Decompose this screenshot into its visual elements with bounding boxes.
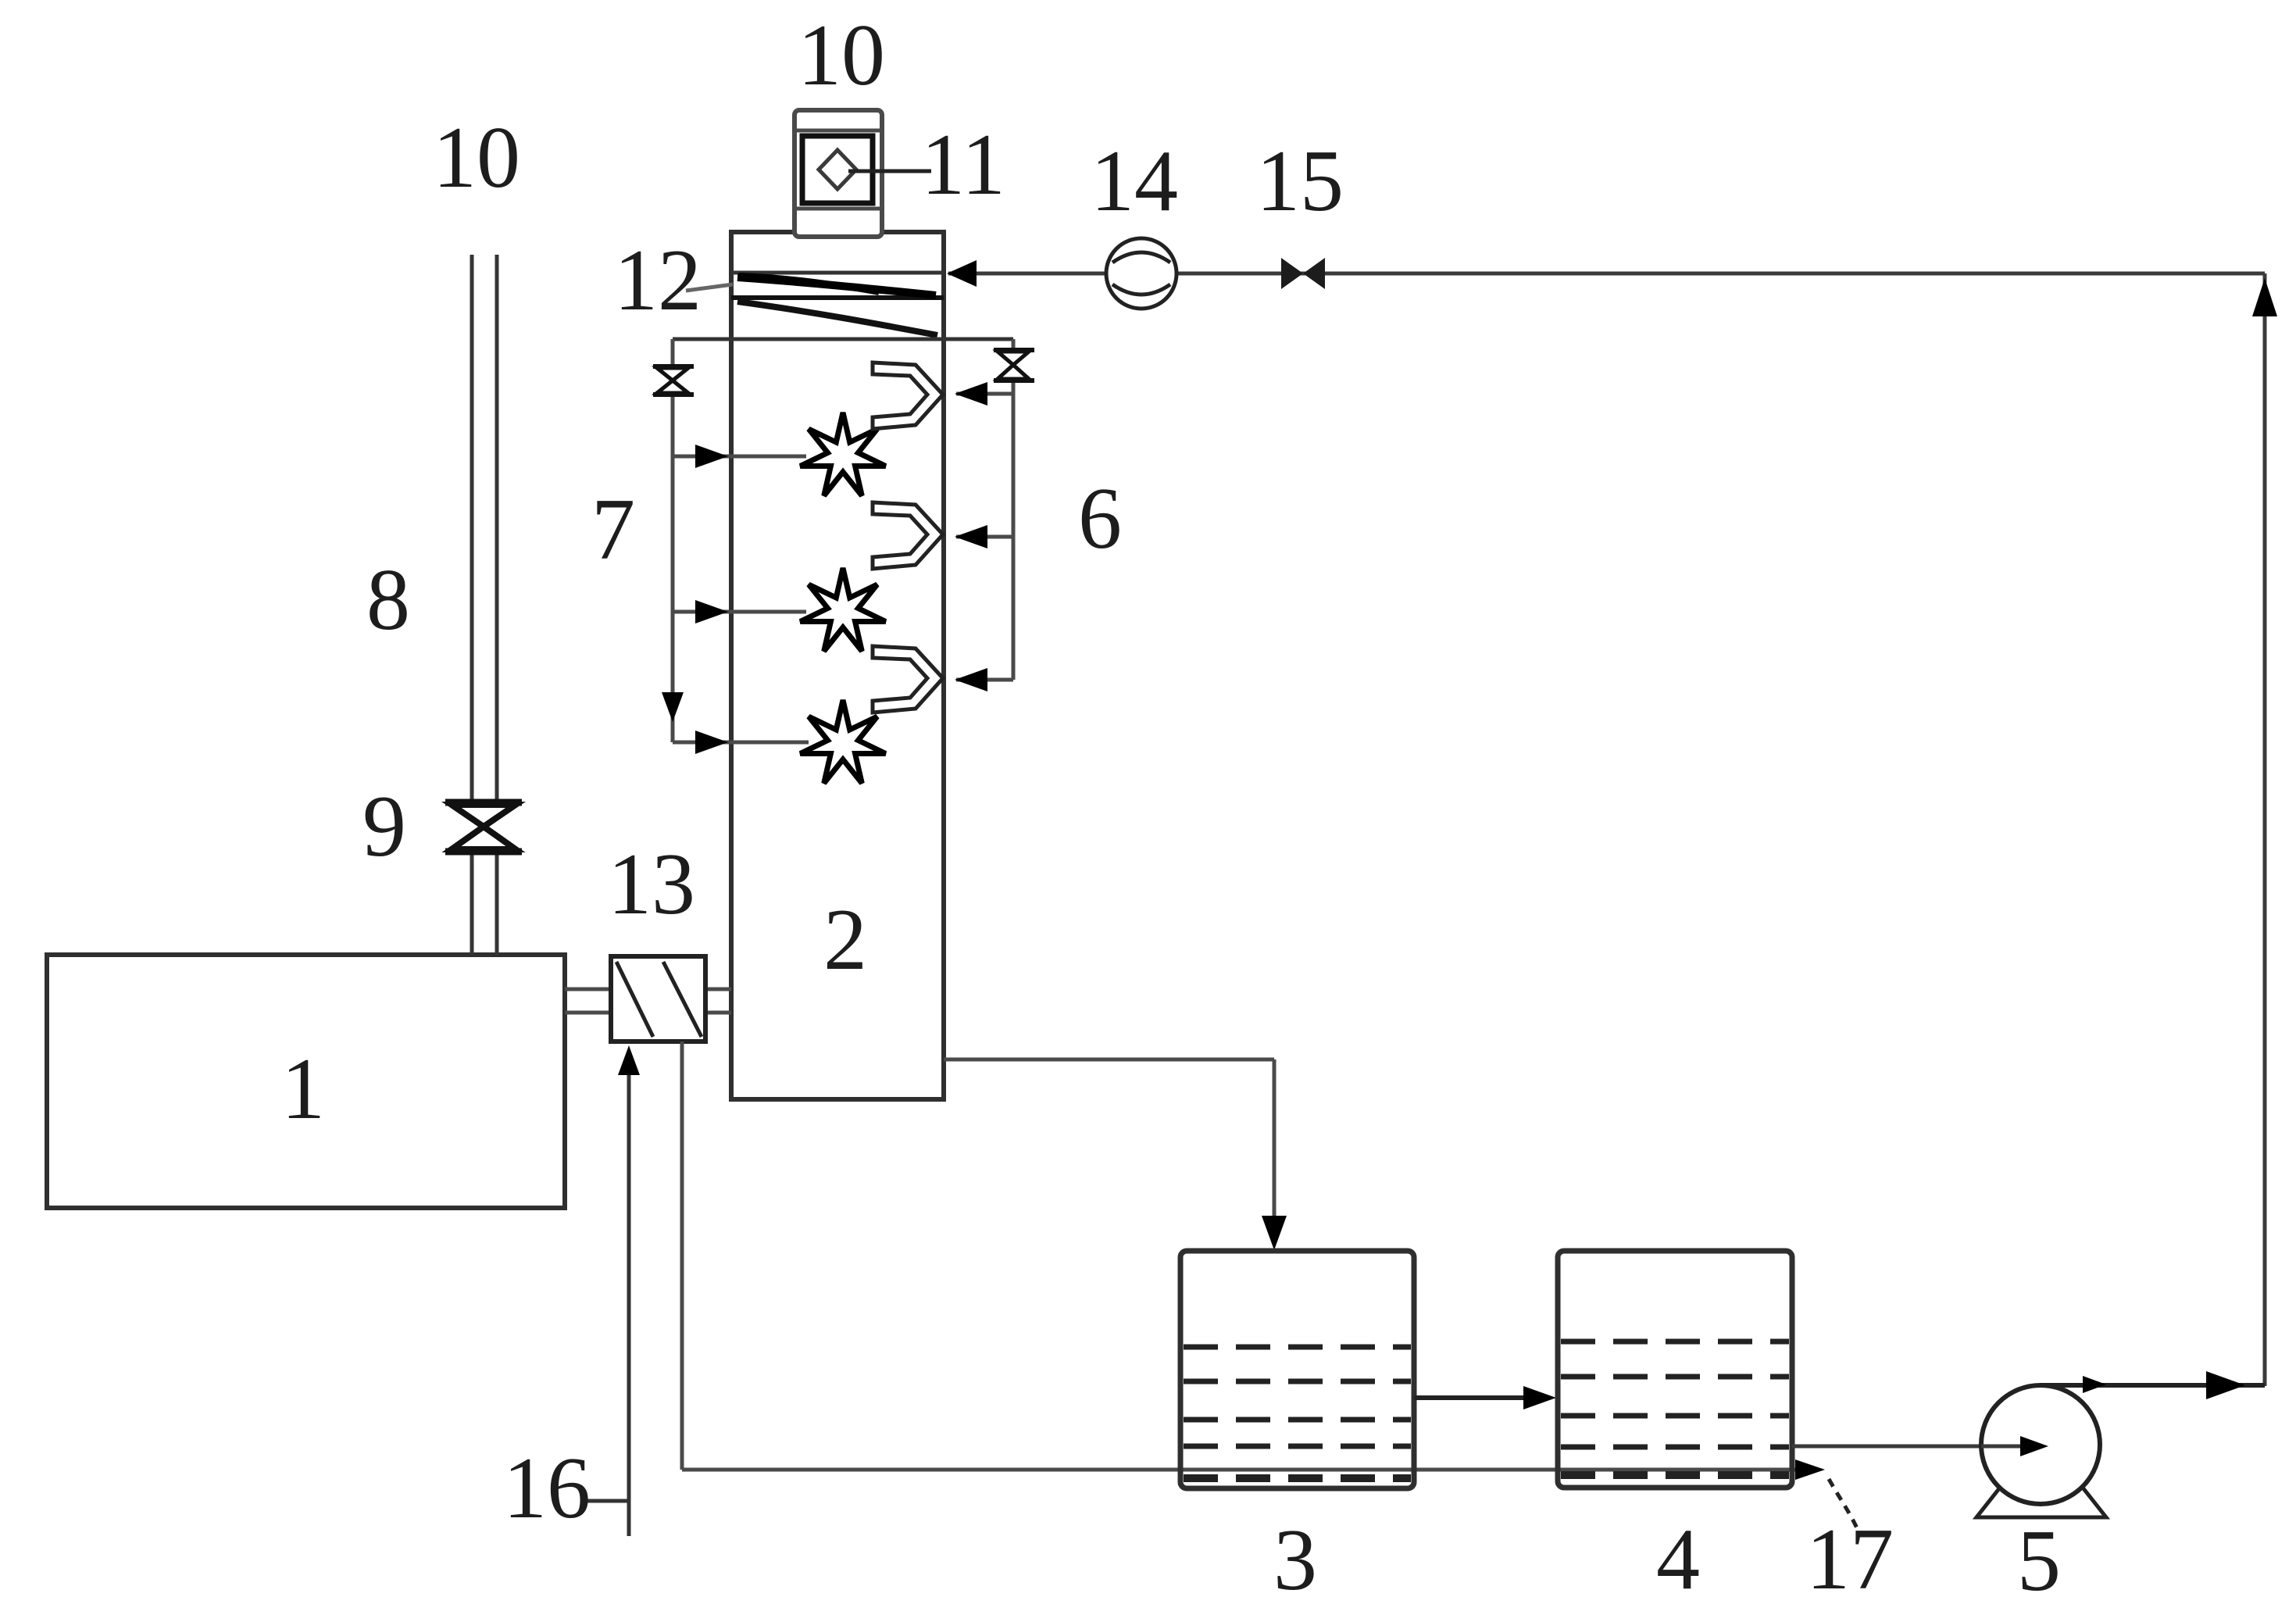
valve on manifold 6 xyxy=(994,350,1034,380)
pump outlet arrowhead at riser xyxy=(2206,1371,2245,1399)
svg-text:10: 10 xyxy=(433,109,520,206)
label 16 leader dash xyxy=(587,1499,629,1503)
svg-text:7: 7 xyxy=(591,481,635,578)
column outlet wire to tank 3 xyxy=(944,1059,1274,1244)
svg-text:17: 17 xyxy=(1806,1511,1894,1608)
gas inlet wire (into column top) xyxy=(948,272,2265,276)
svg-text:6: 6 xyxy=(1078,470,1122,567)
arrowhead into tank 3 xyxy=(1262,1216,1287,1250)
column 2 (spray tower) xyxy=(731,232,944,1099)
pipe 8 (double line outlet stack) xyxy=(472,255,497,955)
svg-text:10: 10 xyxy=(798,7,885,104)
transfer arrowhead xyxy=(1523,1386,1556,1409)
svg-text:11: 11 xyxy=(921,116,1005,213)
atomizer nozzle (star) row 3 xyxy=(800,700,885,784)
svg-text:14: 14 xyxy=(1091,133,1178,230)
pump 5 xyxy=(1976,1385,2265,1517)
svg-text:9: 9 xyxy=(362,778,406,875)
riser arrowhead up xyxy=(2252,278,2277,316)
spray header wire xyxy=(673,338,1013,341)
burner housing 10 (top of column) xyxy=(794,110,882,237)
pump outlet small arrowhead xyxy=(2083,1376,2106,1393)
valve on manifold 7 xyxy=(653,366,694,395)
left manifold 7 wire xyxy=(673,339,809,742)
svg-text:16: 16 xyxy=(503,1440,591,1537)
drain arrowhead 17 xyxy=(1795,1459,1825,1480)
detector box 11 xyxy=(802,136,873,203)
svg-text:13: 13 xyxy=(608,836,695,933)
atomizer nozzle (star) row 1 xyxy=(800,413,885,496)
svg-text:5: 5 xyxy=(2017,1513,2061,1609)
leader line to 12 xyxy=(686,284,733,291)
transfer wire tank 3 to tank 4 xyxy=(1414,1395,1531,1400)
tank 1 xyxy=(47,955,565,1208)
svg-text:15: 15 xyxy=(1256,133,1344,230)
deflector chevron row 3 xyxy=(873,646,943,713)
demister 12 xyxy=(731,273,944,335)
right manifold 6 wire xyxy=(956,339,1013,680)
valve 15 xyxy=(1281,258,1325,289)
inlet arrowhead xyxy=(947,260,977,287)
arrowhead into 13 xyxy=(618,1045,640,1075)
manifold 7 down arrowhead xyxy=(662,692,684,722)
valve 9 xyxy=(445,802,522,852)
svg-text:3: 3 xyxy=(1273,1512,1317,1609)
flow meter 14 xyxy=(1106,238,1177,309)
tank 3 xyxy=(1180,1251,1414,1488)
svg-text:12: 12 xyxy=(614,232,702,329)
svg-text:1: 1 xyxy=(281,1041,325,1138)
tank 4 xyxy=(1558,1251,1792,1488)
deflector chevron row 2 xyxy=(873,502,943,569)
svg-text:4: 4 xyxy=(1656,1511,1700,1608)
atomizer nozzle (star) row 2 xyxy=(800,568,885,652)
feed arrowheads to nozzles xyxy=(695,445,728,468)
suction wire tank 4 to pump xyxy=(1792,1445,2031,1449)
recycle riser wire (right side) xyxy=(2263,273,2267,1386)
svg-text:2: 2 xyxy=(823,891,867,988)
deflector chevron row 1 xyxy=(873,363,943,429)
arrowhead into pump xyxy=(2020,1436,2048,1456)
drain wire from 13 to tanks xyxy=(682,1041,1805,1470)
svg-text:8: 8 xyxy=(366,552,410,648)
coupling wires 1 to 13 xyxy=(565,989,731,1013)
feeder 13 (hatched box) xyxy=(611,956,705,1041)
label 17 leader (dashed) xyxy=(1829,1479,1858,1530)
leader line to 11 xyxy=(848,170,931,173)
wire 16 (air inlet up into 13) xyxy=(627,1055,631,1536)
chevron feed arrowheads xyxy=(955,382,987,405)
